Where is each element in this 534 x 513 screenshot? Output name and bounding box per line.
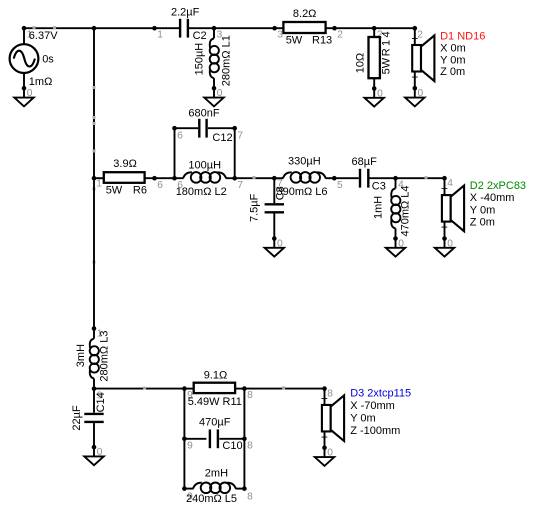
svg-text:X 0m: X 0m xyxy=(440,42,466,54)
svg-text:9.1Ω: 9.1Ω xyxy=(204,370,228,382)
svg-text:7.5µF: 7.5µF xyxy=(249,193,261,222)
svg-text:D2 2xPC83: D2 2xPC83 xyxy=(470,180,526,192)
svg-text:6: 6 xyxy=(177,130,183,141)
svg-text:280mΩ L1: 280mΩ L1 xyxy=(220,35,232,86)
svg-text:Y 0m: Y 0m xyxy=(440,54,465,66)
svg-text:C10: C10 xyxy=(222,440,242,452)
svg-text:Z 0m: Z 0m xyxy=(440,66,465,78)
svg-text:6.37V: 6.37V xyxy=(29,30,58,42)
svg-text:7: 7 xyxy=(237,130,243,141)
svg-text:Z 0m: Z 0m xyxy=(470,216,495,228)
svg-text:280mΩ L3: 280mΩ L3 xyxy=(98,331,110,382)
svg-text:X -70mm: X -70mm xyxy=(350,400,395,412)
svg-text:470µF: 470µF xyxy=(199,416,231,428)
svg-text:−: − xyxy=(411,70,418,84)
svg-text:+: + xyxy=(321,391,328,405)
svg-text:150µH: 150µH xyxy=(194,43,206,76)
svg-text:180mΩ L2: 180mΩ L2 xyxy=(176,186,227,198)
svg-text:Z -100mm: Z -100mm xyxy=(350,425,400,437)
svg-text:−: − xyxy=(441,182,448,196)
svg-text:C2: C2 xyxy=(193,30,207,42)
svg-text:R13: R13 xyxy=(312,35,332,47)
svg-text:D3 2xtcp115: D3 2xtcp115 xyxy=(350,388,411,400)
svg-text:8: 8 xyxy=(247,441,253,452)
svg-text:10Ω: 10Ω xyxy=(355,53,367,73)
svg-text:68µF: 68µF xyxy=(352,156,378,168)
svg-text:Y 0m: Y 0m xyxy=(470,204,495,216)
svg-text:0s: 0s xyxy=(42,54,54,66)
svg-text:100µH: 100µH xyxy=(188,160,221,172)
svg-text:2.2µF: 2.2µF xyxy=(171,7,200,19)
svg-text:8: 8 xyxy=(247,390,253,401)
svg-text:+: + xyxy=(441,220,448,234)
svg-text:5W: 5W xyxy=(380,57,392,74)
svg-text:+: + xyxy=(411,31,418,45)
svg-text:8: 8 xyxy=(247,492,253,503)
svg-text:X -40mm: X -40mm xyxy=(470,192,515,204)
svg-text:240mΩ L5: 240mΩ L5 xyxy=(186,493,237,505)
svg-text:1: 1 xyxy=(96,179,102,190)
svg-text:5W: 5W xyxy=(286,35,303,47)
svg-text:−: − xyxy=(321,430,328,444)
svg-text:4: 4 xyxy=(447,178,453,189)
svg-text:2: 2 xyxy=(337,30,343,41)
svg-text:5.49W R11: 5.49W R11 xyxy=(188,396,242,408)
svg-text:3mH: 3mH xyxy=(75,344,87,367)
svg-text:330µH: 330µH xyxy=(288,155,321,167)
svg-text:8: 8 xyxy=(327,389,333,400)
svg-text:1: 1 xyxy=(157,30,163,41)
svg-text:5: 5 xyxy=(337,180,343,191)
svg-text:3.9Ω: 3.9Ω xyxy=(113,158,137,170)
svg-text:2mH: 2mH xyxy=(205,468,228,480)
svg-text:C12: C12 xyxy=(212,132,232,144)
svg-text:3: 3 xyxy=(277,30,283,41)
svg-text:470mΩ L4: 470mΩ L4 xyxy=(399,185,411,236)
svg-text:22µF: 22µF xyxy=(71,405,83,431)
svg-text:9: 9 xyxy=(187,441,193,452)
svg-text:C3: C3 xyxy=(372,181,386,193)
svg-text:D1 ND16: D1 ND16 xyxy=(440,31,485,43)
svg-text:7: 7 xyxy=(237,180,243,191)
svg-text:8.2Ω: 8.2Ω xyxy=(293,8,317,20)
svg-text:5W: 5W xyxy=(106,185,123,197)
svg-text:6: 6 xyxy=(157,180,163,191)
svg-text:R14: R14 xyxy=(380,29,392,56)
svg-text:C14: C14 xyxy=(95,392,107,412)
svg-text:680nF: 680nF xyxy=(188,107,219,119)
svg-text:R6: R6 xyxy=(133,185,147,197)
svg-text:390mΩ L6: 390mΩ L6 xyxy=(277,186,328,198)
svg-text:Y 0m: Y 0m xyxy=(350,413,375,425)
svg-text:1mH: 1mH xyxy=(372,196,384,219)
svg-text:1mΩ: 1mΩ xyxy=(29,76,53,88)
